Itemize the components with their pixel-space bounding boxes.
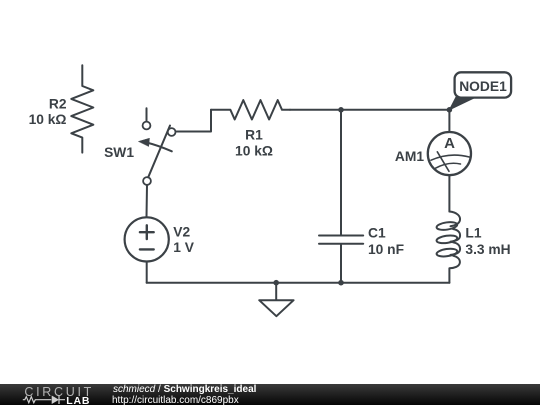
label C1 10 nF [368,226,404,258]
svg-text:R1: R1 [245,128,263,143]
svg-text:LAB: LAB [66,395,90,405]
svg-text:NODE1: NODE1 [459,79,507,94]
resistor R2 [71,65,93,152]
wire C1 top branch [340,110,342,235]
svg-text:A: A [444,135,455,152]
svg-text:R2: R2 [49,97,67,112]
junction ground [273,280,279,286]
label R1 10 kΩ [235,128,273,159]
resistor R1 [211,100,290,119]
wire NODE1 to AM1 [448,110,450,132]
svg-text:10 nF: 10 nF [368,242,404,257]
svg-text:SW1: SW1 [104,145,134,160]
footer bar [0,384,540,405]
svg-text:1 V: 1 V [173,240,195,255]
wire bottom rail [147,282,450,284]
wire top R1 to NODE1 [290,109,449,111]
svg-text:L1: L1 [465,226,481,241]
label R2 10 kΩ [29,97,67,128]
label AM1 [395,149,424,164]
junction top of C1 [338,107,344,113]
node NODE1 [447,72,512,112]
junction bottom of C1 [338,280,344,286]
svg-text:3.3 mH: 3.3 mH [465,242,510,257]
wire C1 bottom branch [340,245,342,283]
wire SW1 to V2 [146,185,149,217]
wire V2 to bottom rail [146,262,148,283]
svg-text:10 kΩ: 10 kΩ [235,143,273,158]
svg-text:C1: C1 [368,226,386,241]
svg-text:V2: V2 [173,225,190,240]
wire SW1 top stub [146,108,148,121]
label SW1 [104,145,134,160]
label L1 3.3 mH [465,226,510,258]
wire SW1 throw to R1 [176,110,211,132]
switch SW1 [139,122,176,185]
footer logo CircuitLab [0,384,110,405]
svg-text:10 kΩ: 10 kΩ [29,112,67,127]
label V2 1 V [173,225,195,256]
svg-text:AM1: AM1 [395,149,424,164]
wire AM1 to L1 [448,175,450,211]
ground [259,283,293,317]
inductor L1 [436,212,460,283]
capacitor C1 [319,236,363,244]
ammeter AM1 [428,132,471,175]
voltage source V2 [125,217,169,261]
